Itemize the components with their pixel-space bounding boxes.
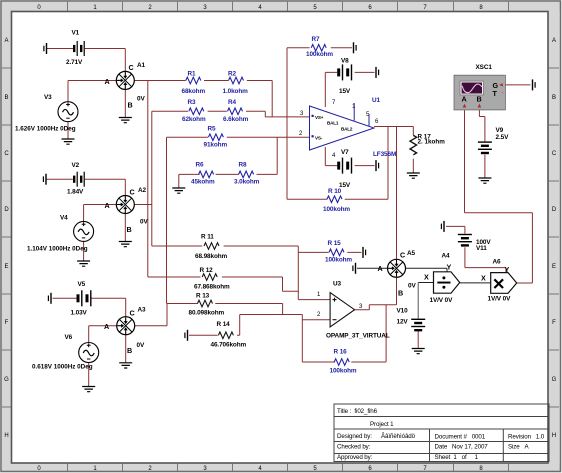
- svg-text:A: A: [105, 201, 110, 210]
- svg-text:2. 1kohm: 2. 1kohm: [418, 138, 446, 145]
- battery V5: [77, 290, 92, 306]
- pin1 stub U1: [353, 103, 355, 121]
- svg-text:G: G: [4, 377, 9, 383]
- svg-text:R 14: R 14: [217, 321, 231, 328]
- resistor R12: [202, 274, 217, 281]
- ground R15: [363, 247, 366, 258]
- wire V5 gnd lead: [53, 297, 77, 299]
- wire R3 R4 row: [152, 111, 310, 117]
- wire R7 left drop: [287, 48, 310, 199]
- svg-text:OPAMP_3T_VIRTUAL: OPAMP_3T_VIRTUAL: [326, 333, 390, 340]
- wire V10 to ground: [417, 331, 419, 349]
- svg-text:62kohm: 62kohm: [182, 116, 206, 123]
- svg-text:R8: R8: [239, 162, 248, 169]
- svg-text:1V/V 0V: 1V/V 0V: [488, 296, 512, 303]
- wire R12 row: [148, 277, 298, 291]
- summer A3: [117, 317, 135, 335]
- wire A4 X to V10: [418, 282, 433, 284]
- svg-text:A1: A1: [137, 62, 146, 69]
- op-amp U1: [310, 106, 375, 150]
- svg-text:100kohm: 100kohm: [323, 206, 350, 213]
- svg-text:V6: V6: [65, 334, 73, 341]
- wire V3 to ground: [67, 122, 69, 139]
- ground scope G: [533, 79, 536, 90]
- ac source V6: [79, 343, 99, 363]
- svg-text:A2: A2: [138, 187, 147, 194]
- resistor R7: [311, 45, 326, 52]
- wire A2 out: [134, 204, 151, 206]
- summer A1: [116, 71, 134, 89]
- svg-text:C: C: [4, 151, 9, 157]
- wire A1 B to ground: [124, 89, 126, 117]
- svg-text:80.098kohm: 80.098kohm: [189, 310, 225, 317]
- pin5 stub U1: [368, 114, 370, 126]
- wire A4 out to A6 X: [460, 282, 491, 284]
- wire V2 to A2 C: [85, 179, 125, 195]
- svg-text:0V: 0V: [137, 342, 145, 349]
- svg-text:68.98kohm: 68.98kohm: [195, 253, 228, 260]
- svg-text:V5: V5: [78, 281, 86, 288]
- ground V4: [77, 261, 90, 266]
- ground V2: [43, 174, 46, 185]
- svg-text:Date Nov 17, 2007: Date Nov 17, 2007: [435, 444, 489, 451]
- wire V5 to A3 C: [91, 298, 126, 316]
- svg-text:G: G: [552, 377, 557, 383]
- svg-text:✕: ✕: [492, 277, 505, 294]
- resistor R17 vertical: [410, 135, 417, 155]
- ac source V3: [58, 102, 78, 122]
- svg-text:X: X: [424, 273, 429, 282]
- wire V6 to ground: [88, 363, 90, 387]
- ground A1: [119, 118, 132, 123]
- svg-text:V7: V7: [341, 149, 349, 156]
- resistor R5: [208, 134, 223, 141]
- wire V3 to A1 A: [68, 81, 116, 102]
- ground R14: [185, 330, 188, 341]
- ruler numbers top: [37, 5, 483, 11]
- svg-text:Title : fi02_fih6: Title : fi02_fih6: [337, 408, 378, 415]
- svg-text:6.6kohm: 6.6kohm: [223, 116, 249, 123]
- wire vertical R3/A2/R11: [151, 111, 153, 246]
- svg-text:Checked by:: Checked by:: [337, 444, 371, 451]
- svg-text:T: T: [493, 89, 498, 98]
- svg-text:E: E: [552, 264, 556, 270]
- svg-text:0.618V 1000Hz 0Deg: 0.618V 1000Hz 0Deg: [32, 364, 93, 371]
- resistor R16: [334, 359, 349, 366]
- ground V8: [376, 67, 379, 78]
- svg-text:B: B: [4, 95, 8, 101]
- svg-text:VS-: VS-: [315, 136, 323, 141]
- svg-text:1.104V 1000Hz 0Deg: 1.104V 1000Hz 0Deg: [27, 246, 88, 253]
- battery V11: [458, 234, 472, 247]
- svg-text:A3: A3: [138, 307, 147, 314]
- svg-text:X: X: [481, 274, 486, 283]
- ground A3: [119, 363, 132, 368]
- svg-text:A: A: [104, 322, 109, 331]
- wire R7 right gnd: [331, 47, 352, 49]
- svg-text:V11: V11: [476, 245, 487, 252]
- wire scope G to gnd: [502, 84, 531, 86]
- svg-text:100kohm: 100kohm: [330, 368, 357, 375]
- wire R15 leads: [298, 251, 361, 253]
- wire V7 leads: [325, 147, 374, 166]
- ground V6: [82, 387, 95, 392]
- svg-text:67.868kohm: 67.868kohm: [194, 284, 230, 291]
- svg-text:A: A: [4, 38, 8, 44]
- ground R17: [407, 173, 420, 178]
- wire R16 leads: [302, 305, 386, 362]
- wire R10 right riser: [345, 127, 388, 200]
- svg-text:R1: R1: [188, 71, 197, 78]
- battery V2: [73, 172, 85, 187]
- wire A5 A gnd: [357, 267, 387, 269]
- wire scope B to V9: [479, 110, 485, 141]
- svg-text:46.706kohm: 46.706kohm: [211, 342, 247, 349]
- resistor R3: [189, 108, 204, 115]
- svg-text:B: B: [128, 101, 133, 110]
- svg-text:12V: 12V: [397, 319, 409, 326]
- svg-text:1.626V 1000Hz 0Deg: 1.626V 1000Hz 0Deg: [15, 126, 76, 133]
- wire junction A1 down: [147, 81, 149, 278]
- ground A2: [119, 242, 132, 247]
- wire R17 to ground: [412, 159, 414, 173]
- divider A4: [434, 272, 460, 293]
- ruler letters right: [552, 38, 557, 439]
- svg-text:Revision 1.0: Revision 1.0: [508, 434, 545, 441]
- svg-text:V1: V1: [72, 30, 80, 37]
- wire R5 row to pin2: [167, 136, 310, 138]
- svg-text:C: C: [130, 188, 135, 197]
- svg-text:R3: R3: [188, 99, 197, 106]
- svg-text:B: B: [127, 346, 132, 355]
- svg-text:Document # 0001: Document # 0001: [435, 434, 486, 441]
- wire A1 out / R1 R2 row: [134, 81, 272, 117]
- ruler letters left: [4, 38, 9, 439]
- svg-text:C: C: [400, 251, 405, 260]
- wire A5 out to A4 Y: [406, 268, 447, 271]
- wire R10 feedback left: [287, 198, 327, 200]
- resistor R10: [327, 196, 342, 203]
- wire V9 to ground: [484, 155, 486, 178]
- svg-text:R 16: R 16: [334, 349, 348, 356]
- svg-text:Project 1: Project 1: [370, 421, 394, 428]
- svg-text:R6: R6: [196, 162, 205, 169]
- ac source V4: [74, 221, 94, 241]
- svg-text:R2: R2: [228, 71, 237, 78]
- wire U3 out: [355, 305, 397, 310]
- svg-text:D: D: [552, 207, 557, 213]
- summer A5: [388, 259, 406, 277]
- svg-text:A: A: [552, 38, 556, 44]
- battery V7: [337, 158, 352, 174]
- svg-text:E: E: [4, 264, 8, 270]
- svg-text:R 12: R 12: [200, 267, 214, 274]
- wire A6 out: [517, 282, 533, 284]
- resistor R11: [204, 243, 219, 250]
- wire scope A loop: [465, 110, 533, 283]
- ground A5 A input: [353, 263, 356, 274]
- svg-text:100kohm: 100kohm: [325, 257, 352, 264]
- battery V10: [411, 319, 425, 332]
- wire V11 to A6 Y: [465, 247, 506, 272]
- ground V7: [376, 160, 379, 171]
- battery V9: [478, 141, 492, 154]
- svg-text:D: D: [4, 207, 9, 213]
- ground R6: [172, 188, 185, 193]
- svg-text:XSC1: XSC1: [476, 64, 493, 71]
- svg-text:U3: U3: [333, 281, 342, 288]
- multiplier A6: [491, 273, 517, 294]
- svg-text:45kohm: 45kohm: [191, 179, 215, 186]
- svg-text:H: H: [4, 433, 8, 439]
- svg-text:A5: A5: [407, 250, 416, 257]
- wire V2 gnd lead: [47, 178, 73, 180]
- svg-text:R 13: R 13: [196, 293, 210, 300]
- resistor R8: [239, 171, 254, 178]
- svg-text:1.84V: 1.84V: [67, 189, 84, 196]
- svg-text:0V: 0V: [137, 96, 145, 103]
- svg-text:91kohm: 91kohm: [204, 142, 228, 149]
- svg-text:100kohm: 100kohm: [306, 51, 333, 58]
- resistor R1: [186, 77, 201, 84]
- wire V4 to A2 A: [84, 205, 117, 222]
- svg-text:Designed by:: Designed by:: [337, 433, 372, 440]
- svg-text:VS+: VS+: [315, 115, 324, 120]
- wire R11 row: [152, 246, 298, 300]
- wire V8 leads: [325, 72, 374, 107]
- svg-text:C: C: [129, 63, 134, 72]
- resistor R13: [198, 300, 213, 307]
- ground V5: [48, 293, 51, 304]
- svg-text:V9: V9: [496, 127, 504, 134]
- wire V1 to A1 C: [85, 49, 126, 72]
- svg-text:Approved by:: Approved by:: [337, 454, 373, 461]
- svg-text:BAL2: BAL2: [341, 127, 353, 132]
- ground V10: [412, 349, 425, 354]
- svg-text:Size A: Size A: [508, 444, 529, 451]
- wire vertical R5 down: [166, 137, 168, 303]
- svg-text:0V: 0V: [408, 283, 416, 290]
- svg-text:2.71V: 2.71V: [66, 59, 83, 66]
- svg-text:V3: V3: [44, 94, 52, 101]
- svg-text:BAL1: BAL1: [327, 121, 339, 126]
- resistor R6: [199, 171, 214, 178]
- svg-text:V2: V2: [72, 162, 80, 169]
- wire V4 to ground: [83, 242, 85, 262]
- battery V8: [337, 64, 352, 80]
- svg-text:U1: U1: [372, 97, 381, 104]
- svg-text:B: B: [127, 225, 132, 234]
- svg-text:B: B: [552, 95, 556, 101]
- ground V11: [441, 221, 444, 232]
- svg-text:0V: 0V: [140, 219, 148, 226]
- wire U1 out down to A5 C: [396, 127, 398, 259]
- op-amp U3: [330, 293, 355, 328]
- wire V1 gnd to battery: [47, 48, 73, 50]
- svg-text:1V/V 0V: 1V/V 0V: [430, 297, 454, 304]
- wire V6 to A3 A: [89, 326, 117, 343]
- summer A2: [116, 196, 134, 214]
- wire R13 row: [167, 304, 283, 315]
- svg-text:LF356M: LF356M: [373, 151, 396, 158]
- svg-text:A: A: [462, 95, 467, 104]
- svg-text:A4: A4: [442, 253, 451, 260]
- wire A5 B stub: [396, 278, 398, 305]
- svg-text:R 10: R 10: [328, 188, 342, 195]
- wire U3 pin1: [298, 299, 330, 301]
- svg-text:V4: V4: [60, 215, 68, 222]
- svg-text:R 15: R 15: [328, 240, 342, 247]
- svg-text:C: C: [130, 309, 135, 318]
- svg-text:A: A: [105, 77, 110, 86]
- svg-text:Y: Y: [505, 265, 510, 274]
- svg-text:A: A: [378, 264, 383, 273]
- svg-text:R7: R7: [312, 36, 321, 43]
- svg-text:15V: 15V: [339, 88, 351, 95]
- ground R7: [354, 42, 357, 53]
- svg-text:V10: V10: [397, 308, 409, 315]
- wire R6 R8 row: [216, 137, 278, 174]
- ground V1: [44, 43, 47, 54]
- ruler numbers bottom: [37, 466, 483, 472]
- svg-text:68kohm: 68kohm: [182, 88, 206, 95]
- svg-text:F: F: [5, 320, 9, 326]
- svg-text:R 11: R 11: [201, 234, 214, 241]
- wire R14 leads: [189, 315, 330, 336]
- svg-text:F: F: [552, 320, 556, 326]
- svg-text:V8: V8: [341, 58, 349, 65]
- wire A3 B to ground: [125, 335, 127, 363]
- svg-text:C: C: [552, 151, 557, 157]
- svg-text:2.5V: 2.5V: [496, 134, 510, 141]
- svg-text:B: B: [477, 95, 482, 104]
- oscilloscope XSC1: [454, 75, 505, 110]
- svg-text:3.0kohm: 3.0kohm: [234, 179, 260, 186]
- resistor R14: [218, 332, 233, 339]
- wire R16 riser left: [301, 320, 303, 362]
- wire A2 B to ground: [124, 214, 126, 242]
- svg-text:1.0kohm: 1.0kohm: [223, 88, 249, 95]
- svg-text:Sheet 1 of 1: Sheet 1 of 1: [435, 454, 479, 461]
- ground V3: [62, 139, 75, 144]
- svg-text:Ââìñèhìóâdö: Ââìñèhìóâdö: [381, 433, 416, 440]
- wire U1 out to R17: [374, 127, 413, 136]
- svg-text:1.03V: 1.03V: [71, 310, 88, 317]
- ground V9: [478, 178, 491, 183]
- svg-text:R5: R5: [208, 126, 217, 133]
- svg-text:A6: A6: [493, 259, 502, 266]
- svg-text:B: B: [398, 289, 403, 298]
- resistor R4: [228, 108, 243, 115]
- battery V1: [73, 41, 85, 56]
- title block: [334, 404, 549, 462]
- wire A3 out: [135, 304, 167, 326]
- resistor R15: [329, 249, 344, 256]
- svg-text:R4: R4: [228, 99, 237, 106]
- svg-text:Y: Y: [447, 263, 452, 272]
- wire V11 top gnd: [446, 226, 465, 233]
- resistor R2: [229, 77, 244, 84]
- svg-text:H: H: [552, 433, 556, 439]
- wire R6 gnd lead: [179, 174, 200, 187]
